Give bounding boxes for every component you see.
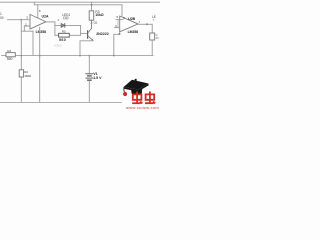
wire U2B lower corner down to mid rail [114, 32, 120, 56]
svg-text:U2B: U2B [128, 17, 135, 21]
wire right join vertical [80, 25, 82, 35]
watermark logo background [122, 77, 160, 110]
wire U2A output [46, 21, 55, 23]
wire U2A pin2 stub [24, 26, 30, 31]
logo char chong #1 [132, 92, 142, 104]
wire second V+ rail [34, 2, 122, 5]
svg-text:1800: 1800 [24, 74, 31, 78]
svg-text:1: 1 [58, 18, 60, 22]
wire vertical left join LED/R5 [54, 22, 56, 35]
transistor Q1 emitter with arrow [88, 36, 93, 41]
wire input to U2A pin3 [8, 19, 30, 21]
transistor Q1 collector [88, 20, 92, 33]
svg-text:LM358: LM358 [36, 30, 47, 34]
logo graduation cap board [124, 80, 149, 90]
svg-text:2N2222: 2N2222 [96, 32, 109, 36]
label LED1 color (small chars) [64, 17, 69, 19]
wire emitter route down [80, 40, 93, 55]
svg-text:00: 00 [0, 16, 4, 20]
svg-text:5: 5 [117, 15, 119, 19]
svg-text:LM358: LM358 [128, 30, 139, 34]
junction on output [146, 23, 148, 25]
junction collector node [91, 22, 93, 24]
wire base of Q1 [81, 32, 88, 34]
pin 6 stub [115, 27, 120, 29]
junction R3 rail2 [91, 4, 93, 6]
wire R3 top to rail [91, 2, 93, 11]
wire horizontal y31 [21, 30, 33, 32]
svg-text:LED1: LED1 [62, 13, 70, 17]
transistor Q1 base bar [87, 31, 89, 38]
wire R5 branch right [69, 34, 80, 36]
battery V1 wire bottom [88, 81, 90, 103]
svg-text:R5: R5 [62, 30, 66, 34]
logo tassel [123, 87, 125, 92]
svg-text:3: 3 [26, 16, 28, 20]
wire vertical B x=33 [32, 31, 34, 55]
logo char chong #2 [145, 92, 155, 104]
mid rail (0V) [2, 55, 154, 57]
wire vertical between stubs [117, 20, 119, 28]
pin 5 stub [116, 19, 123, 21]
wire U2B output [138, 23, 152, 25]
svg-text:www.ccdzw.com: www.ccdzw.com [126, 105, 159, 110]
svg-text:Q1: Q1 [94, 21, 98, 25]
svg-text:U2A: U2A [42, 15, 49, 19]
svg-text:8: 8 [39, 9, 41, 13]
resistor box right edge [150, 33, 155, 40]
wire LED branch [55, 24, 81, 26]
svg-text:10kΩ: 10kΩ [95, 13, 104, 17]
resistor R5 box [59, 33, 70, 37]
svg-text:R4: R4 [7, 49, 11, 53]
svg-text:V1: V1 [93, 72, 97, 76]
svg-text:560: 560 [7, 57, 13, 61]
svg-text:56: 56 [156, 36, 160, 40]
resistor R3 box [89, 11, 94, 20]
wire U2B pin8 drop from rail [121, 5, 123, 17]
wire U2A pin8 to rail [37, 5, 39, 18]
op-amp U2A triangle [30, 14, 46, 29]
battery V1 wire top [88, 56, 90, 74]
wire right resistor to rail [151, 40, 153, 56]
wire output drop right [151, 24, 153, 33]
LED1 diode symbol [61, 24, 65, 28]
svg-text:7: 7 [139, 20, 141, 24]
wire R5 branch left [55, 34, 59, 36]
op-amp U2B triangle [120, 16, 138, 32]
svg-text:1.5 V: 1.5 V [93, 76, 102, 80]
wire top rail V+ [0, 1, 160, 3]
wire U2A pin4 down to bottom rail [39, 27, 41, 102]
wire vertical A x=21.3 down to bottom rail [20, 20, 22, 103]
junction dots on mid rail [20, 55, 22, 57]
svg-text:560: 560 [59, 38, 66, 42]
resistor R4 box on rail [6, 53, 15, 57]
battery V1 plates [86, 73, 93, 75]
resistor R2 box [19, 70, 23, 77]
bottom rail [0, 102, 127, 104]
logo cap head [131, 89, 142, 95]
junction at corner [118, 33, 120, 35]
junction on pin3 wire [20, 19, 22, 21]
svg-text:GND: GND [54, 44, 62, 48]
